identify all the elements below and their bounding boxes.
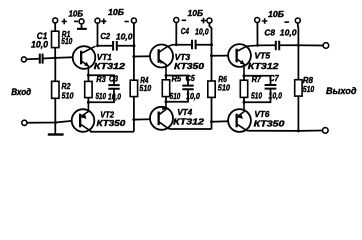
- wire R2 bottom lead to ground: [54, 98, 56, 133]
- svg-text:510: 510: [139, 84, 151, 93]
- wire R3 leads: [87, 75, 89, 102]
- svg-text:10Б: 10Б: [268, 9, 284, 19]
- node base VT6 tap: [210, 120, 213, 123]
- wire input bottom rail: [27, 121, 72, 123]
- capacitor C1: [40, 54, 43, 64]
- svg-text:10,0: 10,0: [116, 31, 133, 41]
- svg-text:10,0: 10,0: [186, 92, 200, 101]
- label R6 value 510: [218, 84, 231, 93]
- wire R1 bottom lead: [54, 48, 56, 58]
- node base VT1 junction: [54, 56, 57, 59]
- transistor VT2: [72, 102, 95, 132]
- node emitter RC top junction stage1: [87, 74, 90, 77]
- transistor VT6: [228, 102, 251, 132]
- label C8 value 10,0: [280, 28, 297, 38]
- battery terminal +10V stage3: [207, 18, 212, 23]
- resistor R8: [295, 80, 302, 96]
- svg-text:С4: С4: [181, 26, 189, 36]
- node emitter RC bottom junction stage2: [165, 100, 168, 103]
- node base VT5 tap: [210, 54, 213, 57]
- capacitor C2: [113, 41, 117, 51]
- label VT5 type KT312: [248, 61, 279, 71]
- wire plus3 vertical: [209, 23, 211, 129]
- label C7 value 10,0: [269, 92, 283, 101]
- wire stage1 top rail: [98, 45, 135, 47]
- label C2 value 10,0: [116, 31, 133, 41]
- label VT3 type KT350: [174, 61, 204, 71]
- wire R7 leads: [243, 76, 245, 102]
- svg-text:КТ312: КТ312: [173, 116, 204, 126]
- wire base VT5: [212, 55, 229, 57]
- label plus sign p3: [201, 18, 206, 24]
- resistor R6: [208, 81, 215, 97]
- svg-text:10Б: 10Б: [69, 9, 84, 19]
- label R8: [303, 76, 314, 85]
- label C1 value 10,0: [31, 40, 48, 50]
- battery terminal +10V stage2: [95, 18, 100, 23]
- node emitter RC top junction stage2: [165, 74, 168, 77]
- svg-text:R7: R7: [252, 75, 262, 84]
- svg-text:С8: С8: [264, 28, 275, 38]
- svg-text:С3: С3: [109, 75, 118, 84]
- wire stem plus1: [54, 23, 56, 31]
- label C7: [269, 74, 279, 83]
- label C4: [181, 26, 189, 36]
- node ground rail junction: [54, 121, 57, 124]
- node C2 right junction: [133, 44, 136, 47]
- svg-text:10,0: 10,0: [280, 28, 297, 38]
- ground under minus1: [77, 28, 87, 30]
- svg-text:С5: С5: [186, 74, 196, 83]
- node emitter RC top junction stage3: [243, 74, 246, 77]
- label R3 value 510: [96, 92, 107, 101]
- wire stage1 collector rail: [90, 131, 134, 133]
- wire R5 leads: [165, 76, 167, 102]
- transistor VT1: [73, 46, 96, 75]
- svg-text:10,0: 10,0: [31, 40, 48, 50]
- label VT2 type KT350: [97, 118, 126, 128]
- svg-text:10,0: 10,0: [108, 93, 121, 102]
- resistor R5: [162, 80, 169, 97]
- battery terminal +10V stage4: [255, 18, 260, 23]
- battery terminal -10V stage3: [174, 18, 179, 23]
- svg-text:10,0: 10,0: [195, 27, 209, 37]
- node base VT4 tap: [132, 118, 135, 121]
- svg-text:R8: R8: [303, 76, 314, 85]
- node base VT3 tap: [132, 55, 135, 58]
- label minus sign p3: [182, 20, 187, 22]
- svg-text:510: 510: [251, 92, 262, 101]
- svg-text:510: 510: [61, 37, 72, 46]
- battery terminal -10V stage4: [295, 18, 300, 23]
- label VT5: [254, 51, 270, 61]
- svg-text:510: 510: [96, 92, 107, 101]
- label VT1 type KT312: [94, 61, 126, 71]
- resistor R7: [240, 80, 247, 97]
- label VT2: [100, 110, 114, 120]
- label R5 value 510: [170, 92, 181, 101]
- wire stage2 top rail: [173, 44, 212, 46]
- svg-text:10Б: 10Б: [188, 8, 204, 18]
- svg-text:Вход: Вход: [11, 87, 31, 97]
- label VT4 type KT312: [173, 116, 204, 126]
- svg-text:10Б: 10Б: [108, 7, 124, 17]
- svg-text:С7: С7: [269, 74, 279, 83]
- label 10V p1: [69, 9, 84, 19]
- label R2 value 510: [62, 91, 74, 100]
- svg-text:510: 510: [218, 84, 231, 93]
- wire RC top stage1: [88, 75, 114, 84]
- battery terminal +10V stage1: [53, 18, 58, 23]
- label C5 value 10,0: [186, 92, 200, 101]
- wire stage2 collector rail: [170, 128, 212, 130]
- battery terminal -10V stage1: [79, 19, 84, 24]
- wire stem plus2 down to rail: [97, 23, 99, 46]
- wire stem plus4: [256, 23, 258, 46]
- label 10V p3: [188, 8, 204, 18]
- svg-text:КТ312: КТ312: [94, 61, 126, 71]
- svg-text:VT5: VT5: [254, 51, 270, 61]
- terminal output top: [323, 43, 329, 49]
- node plus4 corner: [256, 44, 259, 47]
- wire RC bottom stage3: [244, 90, 271, 103]
- label R3: [96, 75, 106, 84]
- capacitor C4: [192, 40, 196, 49]
- label VT3: [175, 52, 191, 62]
- terminal input bottom: [22, 120, 27, 125]
- svg-text:10,0: 10,0: [269, 92, 283, 101]
- svg-text:КТ350: КТ350: [174, 61, 204, 71]
- svg-text:510: 510: [303, 85, 315, 94]
- label plus sign p4: [262, 18, 267, 24]
- node emitter RC bottom junction stage3: [243, 101, 246, 104]
- label R8 value 510: [303, 85, 315, 94]
- node emitter RC bottom junction stage1: [87, 101, 90, 104]
- label R1 value 510: [61, 37, 72, 46]
- label C5: [186, 74, 196, 83]
- label C2: [100, 31, 110, 41]
- node C8 right junction: [297, 44, 300, 47]
- battery terminal -10V stage2: [131, 18, 136, 23]
- wire R2 top lead: [54, 58, 56, 81]
- ground: [48, 133, 64, 135]
- capacitor C8: [276, 41, 279, 50]
- terminal output bottom: [323, 128, 329, 134]
- svg-text:Выход: Выход: [326, 86, 357, 96]
- label R2: [62, 82, 71, 91]
- label R4 value 510: [139, 84, 151, 93]
- label VT6 type KT350: [254, 118, 285, 128]
- terminal input top: [21, 57, 26, 62]
- label C8: [264, 28, 275, 38]
- label C3 value 10,0: [108, 93, 121, 102]
- wire stage3 top rail: [258, 44, 323, 46]
- svg-text:R2: R2: [62, 82, 71, 91]
- resistor R4: [130, 80, 137, 96]
- label minus sign p2: [125, 21, 129, 23]
- wire base VT4: [134, 118, 150, 120]
- capacitor C7: [265, 85, 277, 89]
- resistor R2: [52, 81, 59, 98]
- wire stage3 collector rail: [249, 130, 322, 132]
- wire stem minus3: [175, 23, 177, 45]
- label minus sign p4: [284, 21, 289, 23]
- transistor VT5: [228, 44, 257, 76]
- transistor VT3: [150, 45, 173, 76]
- node collector VT1 corner: [96, 44, 99, 47]
- node minus3 stem junction: [175, 43, 178, 46]
- label R4: [140, 76, 149, 85]
- svg-text:С2: С2: [100, 31, 110, 41]
- label R5: [172, 75, 182, 84]
- label plus sign p1: [62, 19, 67, 25]
- label minus sign p1: [74, 21, 78, 23]
- node R8 bottom junction: [297, 129, 300, 132]
- label C3: [109, 75, 118, 84]
- label VT4: [177, 107, 192, 117]
- capacitor C3: [108, 85, 119, 89]
- svg-text:R5: R5: [172, 75, 182, 84]
- svg-text:510: 510: [62, 91, 74, 100]
- wire minus2 vertical: [133, 23, 135, 132]
- label R7 value 510: [251, 92, 262, 101]
- resistor R1: [52, 31, 59, 47]
- wire RC bottom stage1: [88, 90, 114, 103]
- label VT1: [97, 52, 112, 62]
- label R6: [218, 75, 227, 84]
- label R7: [252, 75, 262, 84]
- wire RC top stage2: [166, 76, 188, 85]
- label Vyhod: [326, 86, 357, 96]
- label R1: [62, 30, 71, 39]
- svg-text:КТ350: КТ350: [254, 118, 285, 128]
- wire base VT3: [134, 55, 150, 57]
- svg-text:КТ350: КТ350: [97, 118, 126, 128]
- label 10V p4: [268, 9, 284, 19]
- label C4 value 10,0: [195, 27, 209, 37]
- capacitor C5: [182, 86, 193, 90]
- svg-text:R3: R3: [96, 75, 106, 84]
- wire minus4 vertical: [297, 23, 300, 131]
- node input top wire: [27, 57, 73, 59]
- transistor VT4: [150, 102, 173, 130]
- wire stem minus1: [81, 24, 83, 28]
- label C1: [37, 31, 48, 41]
- label plus sign p2: [101, 19, 106, 25]
- wire base VT6: [212, 120, 229, 123]
- wire RC bottom stage2: [166, 90, 188, 102]
- svg-text:510: 510: [170, 92, 181, 101]
- label Vhod: [11, 87, 31, 97]
- resistor R3: [85, 81, 92, 97]
- node C4 right junction: [210, 43, 213, 46]
- label VT6: [254, 109, 269, 119]
- wire RC top stage3: [244, 76, 271, 84]
- label 10V p2: [108, 7, 124, 17]
- svg-text:КТ312: КТ312: [248, 61, 279, 71]
